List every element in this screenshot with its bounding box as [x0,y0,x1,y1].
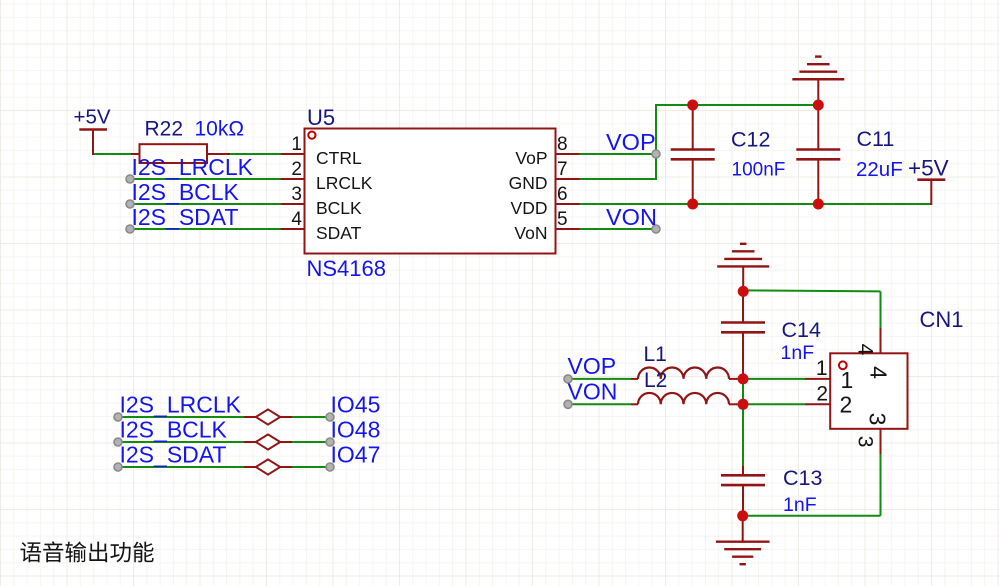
svg-text:4: 4 [291,209,302,230]
svg-text:U5: U5 [307,105,335,130]
svg-text:3: 3 [853,436,876,448]
svg-text:2: 2 [840,392,853,418]
svg-text:3: 3 [865,413,891,426]
svg-text:L2: L2 [644,369,667,392]
svg-text:L1: L1 [644,343,667,366]
svg-text:4: 4 [865,366,891,379]
svg-text:VoP: VoP [515,148,547,168]
svg-text:I2S_SDAT: I2S_SDAT [120,442,227,468]
svg-text:LRCLK: LRCLK [316,173,373,193]
svg-text:8: 8 [557,134,568,155]
svg-text:3: 3 [291,184,302,205]
svg-text:IO45: IO45 [331,392,381,418]
svg-text:VoN: VoN [514,223,547,243]
svg-text:IO47: IO47 [331,442,381,468]
svg-text:I2S_BCLK: I2S_BCLK [120,417,228,443]
svg-text:VON: VON [568,379,618,405]
svg-text:7: 7 [557,159,568,180]
svg-text:1: 1 [291,134,302,155]
svg-text:6: 6 [557,184,568,205]
svg-text:I2S_BCLK: I2S_BCLK [132,179,240,205]
svg-text:GND: GND [509,173,548,193]
svg-text:1: 1 [816,357,828,380]
svg-text:VOP: VOP [606,129,656,155]
svg-text:BCLK: BCLK [316,198,362,218]
svg-text:C11: C11 [857,127,895,151]
svg-text:I2S_SDAT: I2S_SDAT [132,204,239,230]
svg-text:22uF: 22uF [856,158,903,181]
svg-text:VON: VON [606,204,657,230]
svg-text:2: 2 [291,159,302,180]
svg-text:1nF: 1nF [781,342,815,364]
svg-text:IO48: IO48 [331,417,381,443]
svg-text:10kΩ: 10kΩ [195,118,245,141]
svg-text:R22: R22 [145,118,184,141]
svg-text:VOP: VOP [568,353,617,379]
svg-text:4: 4 [853,344,876,356]
svg-text:CN1: CN1 [920,307,964,332]
svg-text:100nF: 100nF [732,160,786,181]
svg-text:5: 5 [557,209,568,230]
svg-text:NS4168: NS4168 [307,256,387,281]
svg-text:CTRL: CTRL [316,148,362,168]
svg-text:2: 2 [816,383,828,406]
svg-text:+5V: +5V [74,106,111,129]
svg-text:C14: C14 [782,318,821,342]
svg-text:SDAT: SDAT [316,223,362,243]
svg-text:1: 1 [841,367,854,393]
svg-text:VDD: VDD [511,198,548,218]
svg-text:I2S_LRCLK: I2S_LRCLK [120,392,242,418]
svg-text:I2S_LRCLK: I2S_LRCLK [132,154,254,180]
svg-text:C12: C12 [731,128,770,152]
svg-text:1nF: 1nF [783,494,817,516]
svg-text:C13: C13 [783,466,822,490]
svg-text:+5V: +5V [908,156,949,181]
